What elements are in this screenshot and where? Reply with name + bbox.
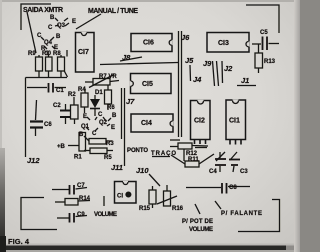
svg-text:C1: C1 <box>56 88 64 94</box>
svg-text:B: B <box>79 132 84 138</box>
svg-text:CI6: CI6 <box>143 40 154 47</box>
svg-text:SAIDA XMTR: SAIDA XMTR <box>23 7 63 14</box>
svg-text:C2: C2 <box>53 103 61 109</box>
svg-text:CI5: CI5 <box>142 81 153 88</box>
svg-text:J6: J6 <box>181 33 190 42</box>
svg-text:R1: R1 <box>74 155 82 161</box>
svg-text:C: C <box>92 131 97 137</box>
svg-text:CI2: CI2 <box>194 118 205 125</box>
svg-text:R8: R8 <box>53 51 61 57</box>
svg-text:J7: J7 <box>126 97 135 106</box>
svg-text:R10: R10 <box>42 51 52 57</box>
svg-text:B: B <box>50 15 55 21</box>
svg-text:B: B <box>56 34 61 40</box>
svg-text:Q2: Q2 <box>99 120 108 126</box>
svg-text:+B: +B <box>57 144 66 150</box>
svg-text:VOLUME: VOLUME <box>189 227 213 233</box>
svg-text:R6: R6 <box>107 105 115 111</box>
svg-text:P/ POT DE: P/ POT DE <box>182 219 213 225</box>
svg-text:R9: R9 <box>28 51 36 57</box>
svg-text:J12: J12 <box>27 156 40 165</box>
svg-text:C: C <box>98 112 103 118</box>
svg-text:R3: R3 <box>106 141 114 147</box>
svg-text:CI4: CI4 <box>141 120 152 127</box>
svg-text:E: E <box>72 19 76 25</box>
svg-text:C: C <box>48 25 53 31</box>
svg-text:R5: R5 <box>104 155 112 161</box>
svg-text:E: E <box>83 114 87 120</box>
svg-text:R13: R13 <box>264 59 276 65</box>
svg-text:PONTO: PONTO <box>127 148 148 154</box>
svg-text:CI1: CI1 <box>229 118 240 125</box>
svg-text:CI: CI <box>117 194 123 200</box>
svg-text:J8: J8 <box>122 53 131 62</box>
svg-text:MANUAL / TUNE: MANUAL / TUNE <box>88 8 138 15</box>
svg-text:B: B <box>112 113 117 119</box>
svg-text:R4: R4 <box>78 87 86 93</box>
svg-text:C6: C6 <box>44 122 52 128</box>
svg-text:E: E <box>111 125 115 131</box>
svg-text:J11: J11 <box>111 163 123 172</box>
svg-text:J9: J9 <box>203 59 212 68</box>
svg-text:C5: C5 <box>260 30 268 36</box>
svg-text:D1: D1 <box>95 90 103 96</box>
svg-text:J4: J4 <box>193 75 202 84</box>
svg-text:P/ FALANTE: P/ FALANTE <box>221 211 262 217</box>
svg-text:J1: J1 <box>241 76 249 85</box>
svg-text:R15: R15 <box>139 206 151 212</box>
svg-text:TRAÇO: TRAÇO <box>151 151 176 157</box>
svg-text:FIG. 4: FIG. 4 <box>8 237 30 246</box>
svg-text:C: C <box>37 33 42 39</box>
svg-text:C3: C3 <box>240 169 248 175</box>
svg-text:R11: R11 <box>188 157 199 163</box>
svg-text:R7 VR: R7 VR <box>99 74 117 80</box>
svg-text:C4: C4 <box>209 169 217 175</box>
svg-text:CI3: CI3 <box>218 40 229 47</box>
svg-text:CI7: CI7 <box>78 49 89 56</box>
svg-text:VOLUME: VOLUME <box>94 212 117 218</box>
svg-text:Q3: Q3 <box>57 23 66 29</box>
svg-text:J2: J2 <box>224 64 233 73</box>
svg-text:Q1: Q1 <box>81 124 90 130</box>
svg-text:C7: C7 <box>77 183 85 189</box>
svg-text:R14: R14 <box>79 196 91 202</box>
svg-text:C9: C9 <box>77 212 85 218</box>
svg-text:C8: C8 <box>229 185 237 191</box>
svg-text:R16: R16 <box>172 206 184 212</box>
svg-text:J10: J10 <box>136 166 149 175</box>
svg-text:R2: R2 <box>68 92 76 98</box>
svg-text:J5: J5 <box>185 56 194 65</box>
